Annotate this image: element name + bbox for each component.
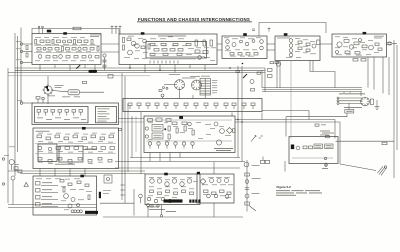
- wire box M internal: [146, 140, 232, 142]
- resistor RX2: [245, 202, 250, 205]
- resistor RA21: [53, 56, 57, 59]
- resistor RL11: [65, 147, 70, 150]
- resistor RA25: [95, 56, 99, 59]
- capacitor CR6: [72, 110, 76, 116]
- socket pin H2: [217, 179, 221, 183]
- connector pin G5: [189, 200, 191, 203]
- resistor RA18: [90, 48, 94, 51]
- capacitor right of tube V3: [370, 99, 373, 104]
- label texts box D interior: [286, 38, 316, 58]
- ground symbol: [375, 100, 380, 110]
- resistor RB13: [195, 50, 200, 53]
- label texts box H interior: [202, 185, 233, 198]
- label text box E: [374, 36, 384, 39]
- capacitor CS3: [146, 103, 150, 109]
- wire mid bottom vertical: [133, 189, 135, 216]
- resistor RA5: [57, 40, 61, 43]
- connector pin G6: [192, 200, 194, 203]
- wire diagonal arrow: [249, 206, 256, 212]
- transformer TC5: [260, 40, 264, 44]
- resistor RL21: [78, 158, 82, 161]
- resistor RL18: [48, 160, 52, 163]
- transistor QG3: [165, 182, 169, 186]
- block box R2a inner left: [35, 107, 89, 123]
- wire stub SR1 top 2: [349, 92, 351, 93]
- block box F calibrator: [289, 137, 338, 164]
- transformer TB2: [135, 44, 140, 49]
- potentiometer P2: [11, 176, 15, 180]
- resistor RE4: [345, 51, 350, 54]
- socket pin G1: [147, 197, 150, 200]
- label text box G bottom: [147, 207, 165, 210]
- capacitor C1: [68, 90, 80, 95]
- wire S2 up: [47, 76, 49, 86]
- resistor RB5: [148, 44, 150, 49]
- resistor RK6: [88, 195, 90, 200]
- relay box M1: [152, 125, 163, 132]
- transformer TB1: [131, 41, 136, 46]
- relay box M2: [152, 133, 163, 139]
- junction dot 1: [129, 67, 130, 68]
- sub-box L1: [38, 144, 57, 162]
- wire left vertical bus 2: [17, 36, 19, 152]
- wire stub A1: [39, 65, 41, 71]
- label text box L: [36, 130, 50, 133]
- resistor RM7: [184, 126, 186, 131]
- wire center vertical 5: [135, 116, 137, 152]
- junction dot 3: [229, 67, 230, 68]
- transistor QA5: [59, 55, 63, 59]
- capacitor CS13: [242, 103, 246, 109]
- transistor QG4: [172, 179, 176, 183]
- wire stub M4: [179, 153, 181, 158]
- capacitor above box F left: [315, 124, 326, 126]
- wire right edge vertical 2: [396, 45, 398, 150]
- wire horizontal bus 3: [8, 72, 265, 74]
- connector D right: [317, 40, 321, 45]
- capacitor CB2: [150, 43, 155, 45]
- connector tab L: [82, 127, 86, 130]
- label plate L: [85, 149, 97, 150]
- wire below box G: [160, 205, 162, 218]
- switch arm diagonal: [76, 65, 80, 69]
- resistor RL22: [88, 160, 92, 163]
- input jack J1: [20, 43, 32, 45]
- transistor QM3: [220, 129, 225, 134]
- resistor RL10: [56, 147, 61, 150]
- wire below box M 2: [115, 161, 245, 163]
- label texts box C interior: [224, 38, 261, 57]
- lamp DS5: [139, 194, 143, 203]
- capacitor CS6: [174, 103, 178, 109]
- terminal column A-B gap 2: [103, 60, 106, 62]
- resistor RA14: [62, 47, 64, 52]
- connector lozenge on bus: [89, 70, 98, 73]
- capacitor near rotary: [83, 81, 87, 83]
- potentiometer PM3: [165, 142, 168, 149]
- resistor RB1: [123, 38, 125, 43]
- tick on center vertical 3: [121, 194, 125, 196]
- resistor RX1: [245, 173, 250, 176]
- switch row K2: [36, 189, 59, 193]
- label text below box G: [166, 210, 176, 213]
- resistor RD3: [306, 43, 310, 46]
- wire horizontal bus 4: [8, 75, 150, 77]
- wire stub M5: [149, 158, 151, 162]
- resistor RE8: [353, 59, 358, 62]
- rectifier DM1: [227, 128, 233, 134]
- resistor RL7: [91, 135, 96, 138]
- resistor RR1: [382, 142, 387, 145]
- resistor RL15: [101, 147, 106, 150]
- resistor RB6: [154, 49, 159, 52]
- wire left vertical bus 1: [14, 33, 16, 176]
- wire below box M: [130, 157, 240, 159]
- label text chain 3: [252, 192, 260, 195]
- tick mark right of box M 1: [259, 137, 262, 139]
- resistor RL8: [100, 137, 105, 140]
- wire center vertical 3: [127, 104, 129, 172]
- wire stub L3: [69, 169, 71, 177]
- socket pin X1: [245, 180, 249, 184]
- wire stub E down 2: [388, 57, 390, 95]
- wire bus junction riser: [264, 68, 266, 92]
- wire right routing top 2: [312, 61, 314, 72]
- wire box A row divider: [34, 44, 100, 46]
- wire stub L1: [39, 169, 41, 177]
- terminal column A-B gap 3: [103, 65, 106, 67]
- capacitor CS4: [155, 103, 159, 109]
- block box R2c interconnect strip: [123, 99, 262, 112]
- label texts box A interior: [35, 37, 95, 61]
- label plate K: [85, 211, 98, 214]
- transistor QE1: [349, 45, 353, 49]
- coil LK1: [71, 210, 82, 213]
- capacitor CW2: [270, 62, 274, 64]
- wire below box M 3: [115, 167, 240, 169]
- wire box L internal 2: [35, 153, 116, 155]
- block box E horizontal amplifier: [332, 34, 387, 57]
- wire right bus 1: [262, 87, 362, 89]
- relay box RL1: [108, 75, 113, 79]
- resistor RA1: [35, 40, 37, 45]
- label text box L bottom: [55, 163, 75, 166]
- tick on center vertical 2: [121, 189, 125, 191]
- resistor RG1: [150, 190, 154, 193]
- junction dark dot box M: [164, 128, 166, 130]
- resistor RG6: [190, 192, 194, 195]
- connector tab D: [284, 33, 288, 36]
- resistor RA7: [74, 40, 76, 45]
- potentiometer PM5: [182, 142, 185, 149]
- transistor QC2: [252, 40, 255, 43]
- resistor RK2: [68, 183, 72, 186]
- resistor RK1: [60, 180, 64, 183]
- terminal near V1 b: [166, 87, 168, 89]
- wire from box F down: [284, 161, 286, 172]
- rectifier DH1: [200, 179, 206, 185]
- capacitor CS12: [232, 103, 236, 109]
- wire right bus 3: [262, 91, 362, 93]
- capacitor CB5: [186, 43, 191, 45]
- wire bottom rule: [103, 216, 243, 218]
- socket pin H6: [225, 195, 229, 199]
- transistor QA3: [78, 47, 81, 50]
- svg-text:FUNCTIONS AND CHASSIS INTERCON: FUNCTIONS AND CHASSIS INTERCONNECTIONS: [138, 17, 250, 22]
- resistor RM8: [192, 130, 194, 135]
- svg-text:Figure 5-2: Figure 5-2: [277, 185, 292, 189]
- switch row K1: [36, 182, 59, 186]
- rotary switch S2 wedge: [45, 86, 48, 90]
- wire D to F vertical: [290, 61, 292, 139]
- wire E bottom drop 4: [373, 57, 375, 90]
- socket pin M2: [145, 135, 148, 138]
- label text above box F: [320, 131, 334, 136]
- wire into box H top: [213, 162, 215, 174]
- wire into box M left 2: [115, 121, 144, 123]
- transistor QL1: [38, 146, 42, 150]
- label texts box L interior: [38, 133, 115, 164]
- wire right edge vertical 1: [393, 40, 395, 178]
- transformer TC4: [245, 42, 249, 46]
- label text chain 1: [252, 164, 260, 167]
- resistor RM4: [168, 126, 170, 131]
- resistor RA8: [78, 40, 82, 43]
- resistor RC1: [230, 53, 234, 56]
- connector tab C: [243, 33, 247, 36]
- connector tab M: [179, 116, 183, 119]
- transformer TC6: [260, 46, 264, 50]
- resistor RG2: [158, 192, 162, 195]
- wire link C-D 1: [267, 43, 275, 45]
- resistor RA23: [74, 56, 78, 59]
- wire right bus 2: [262, 89, 362, 91]
- resistor R102: [26, 53, 28, 57]
- transformer TE1: [337, 42, 342, 47]
- resistor RB12: [210, 40, 213, 46]
- resistor RK3: [77, 181, 81, 184]
- resistor RK4: [85, 184, 89, 187]
- capacitor CS5: [164, 103, 168, 109]
- wire D bottom drop 2: [279, 61, 281, 88]
- wire center vertical 6: [140, 112, 142, 174]
- socket strip SR1: [337, 97, 362, 107]
- resistor RE6: [375, 43, 379, 46]
- note text line 1: [276, 189, 320, 192]
- wire box F to screw: [340, 164, 376, 171]
- wire right stub h: [262, 111, 309, 120]
- relay box F2: [325, 144, 334, 149]
- junction dot 2: [159, 70, 160, 71]
- chassis screw symbol: [378, 166, 387, 176]
- resistor RA9: [84, 40, 88, 43]
- potentiometer PM2: [157, 142, 160, 149]
- wire routing right mid 1: [235, 119, 335, 121]
- wire R2c to route: [261, 113, 263, 120]
- wire stub M1: [149, 153, 151, 158]
- connector tab A: [63, 32, 67, 35]
- capacitor near V1: [159, 90, 162, 92]
- capacitor CB8: [177, 53, 182, 55]
- resistor RH4: [227, 192, 231, 195]
- resistor RA4: [52, 40, 54, 45]
- sub-box B inner: [146, 42, 207, 59]
- capacitor CS10: [214, 103, 218, 109]
- transistor QL2: [48, 147, 51, 150]
- wire SR1 to RR2: [348, 103, 350, 109]
- wire stub A2: [54, 65, 56, 69]
- resistor RB14: [203, 51, 208, 54]
- resistor RA10: [91, 40, 93, 45]
- wire left vertical bus 4: [20, 28, 22, 104]
- wire stub M6: [159, 158, 161, 162]
- wire link D-E: [320, 43, 332, 45]
- socket pin F2: [324, 157, 326, 159]
- wire S2 down: [47, 94, 49, 104]
- resistor RL5: [73, 135, 78, 138]
- socket pin G4: [168, 199, 171, 202]
- connector plate F: [291, 145, 294, 150]
- capacitor CW3: [275, 62, 279, 64]
- note text line 2: [276, 192, 322, 195]
- label text below box F: [322, 167, 328, 170]
- junction dot 5: [241, 121, 242, 122]
- terminal near V1 a: [163, 87, 165, 89]
- wire RR2 to box F region: [286, 113, 347, 137]
- resistor RL3: [55, 135, 60, 138]
- resistor RA15: [66, 48, 70, 51]
- rotary switch S2: [43, 84, 54, 96]
- capacitor above R2: [36, 97, 40, 104]
- label text box B: [158, 35, 186, 38]
- resistor RF2: [309, 146, 313, 149]
- resistor RM5: [168, 134, 170, 139]
- relay box F1: [314, 144, 323, 149]
- warning triangle: [24, 183, 28, 187]
- socket pin F1: [296, 146, 300, 150]
- wire box B internal 2: [150, 56, 205, 58]
- wire S2 to C1: [52, 91, 68, 92]
- transistor QA1: [63, 40, 66, 43]
- socket pin D3: [289, 49, 293, 53]
- wire box A row divider 2: [34, 52, 100, 54]
- wire box B internal 1: [150, 53, 205, 55]
- wire strip to box M: [231, 113, 233, 117]
- socket pin D1: [289, 39, 293, 43]
- wire link B-C 1: [217, 43, 222, 45]
- resistor RC2: [238, 53, 242, 56]
- resistor RG3: [166, 190, 170, 193]
- socket pin G9: [151, 205, 153, 207]
- block box R2b inner right: [96, 107, 117, 123]
- resistor RP1: [14, 167, 18, 170]
- capacitor CS14: [251, 103, 255, 109]
- socket pin G10: [157, 205, 159, 207]
- label text tube V1: [169, 73, 180, 76]
- socket pin H3: [225, 179, 229, 183]
- capacitor CX2: [261, 157, 270, 164]
- resistor RW1: [268, 69, 273, 72]
- terminal row box B: [150, 61, 178, 64]
- diode arrow right of box M: [251, 136, 256, 142]
- block box M low voltage supply: [144, 116, 235, 153]
- lamp DS4: [77, 204, 80, 207]
- resistor RL6: [82, 137, 87, 140]
- resistor RF1: [303, 146, 307, 149]
- tick on center vertical 1: [121, 184, 125, 186]
- transistor QC1: [240, 40, 243, 43]
- wire box H bottom stub: [213, 203, 215, 217]
- capacitor CB4: [173, 43, 178, 45]
- switch row K4: [36, 203, 59, 207]
- terminal column A-B gap 1: [103, 54, 106, 57]
- fuse F1: [47, 30, 51, 33]
- socket pin M1: [145, 127, 148, 130]
- test point TP1: [38, 26, 40, 33]
- label text box D: [277, 37, 290, 40]
- switch arm right column: [243, 74, 247, 78]
- resistor RL9: [109, 135, 114, 138]
- resistor RB3: [127, 38, 131, 41]
- resistor RB9: [178, 49, 183, 52]
- wire routing right mid drop 1: [334, 120, 336, 139]
- wire stub E down 1: [382, 57, 384, 94]
- capacitor CS1: [128, 103, 132, 109]
- resistor RL17: [38, 158, 42, 161]
- transistor QM1: [188, 122, 192, 126]
- wire box F internal: [292, 157, 333, 159]
- capacitor CR3: [51, 110, 55, 116]
- resistor RM2: [156, 118, 162, 122]
- wire box L internal 1: [35, 143, 116, 145]
- wire horizontal bus 1: [15, 67, 265, 69]
- wire right routing top: [310, 61, 335, 88]
- block box B sweep circuit: [119, 34, 217, 65]
- resistor RB8: [170, 49, 175, 52]
- wire stub A4: [84, 65, 86, 69]
- capacitor below box C 1: [236, 71, 240, 73]
- wire bus junction riser 2: [261, 70, 263, 87]
- resistor RM11: [233, 129, 236, 133]
- label text box H: [208, 176, 230, 179]
- transistor QA2: [43, 47, 46, 50]
- connector tab G: [164, 173, 168, 176]
- resistor RP2: [18, 170, 22, 173]
- label plate G: [164, 199, 183, 202]
- label texts box G interior: [148, 177, 198, 198]
- wire top feed: [32, 29, 119, 35]
- wire tube V1 left lead: [164, 84, 175, 86]
- resistor RM6: [176, 128, 178, 133]
- capacitor CS2: [137, 103, 141, 109]
- label texts box M interior: [148, 122, 231, 141]
- socket pin H1: [210, 179, 214, 183]
- resistor RA12: [48, 48, 52, 51]
- capacitor CB6: [150, 53, 155, 55]
- socket pin D4: [289, 53, 293, 57]
- connector pin G8: [198, 200, 200, 203]
- resistor RD2: [298, 47, 302, 50]
- wire tube link: [182, 77, 196, 79]
- resistor RE9: [361, 59, 366, 62]
- note text line 3: [276, 194, 296, 197]
- label text box A: [90, 35, 101, 37]
- test point TP3: [111, 26, 114, 35]
- wire loop top right: [259, 23, 326, 37]
- lamp DS3: [68, 204, 72, 208]
- label texts box K interior: [36, 179, 92, 211]
- label text chain 2: [252, 177, 261, 180]
